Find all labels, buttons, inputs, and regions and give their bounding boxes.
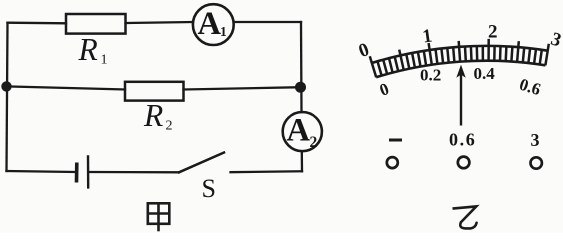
terminal label minus (389, 139, 402, 142)
ammeter A1 (193, 4, 234, 45)
needle (pointer arrow) (460, 70, 462, 126)
svg-text:3: 3 (548, 29, 563, 52)
svg-text:2: 2 (310, 134, 318, 151)
node: left junction dot (1, 81, 11, 91)
wire: A2 down to bottom-right corner (301, 151, 304, 171)
svg-text:0.2: 0.2 (420, 66, 441, 85)
wire: battery to switch pivot (90, 171, 180, 174)
svg-text:1: 1 (101, 53, 108, 68)
label 甲 (drawn) (148, 203, 170, 231)
terminal post minus (387, 157, 398, 168)
svg-text:A: A (287, 113, 311, 149)
node: right junction dot (295, 82, 306, 93)
resistor R2 (125, 82, 184, 101)
wire: top-left segment to R1 (8, 22, 67, 25)
terminal post 3 (531, 157, 542, 168)
meter scale band inner arc (376, 61, 545, 78)
meter scale band outer arc (372, 46, 548, 63)
wire: bottom-right segment from switch to corner (231, 170, 303, 173)
svg-text:R: R (143, 98, 163, 133)
svg-text:1: 1 (421, 25, 433, 47)
battery negative plate (short) (75, 163, 79, 183)
svg-text:0: 0 (356, 39, 372, 62)
wire: right vertical from top corner down to A2 (300, 22, 303, 112)
wire: left vertical branch (7, 23, 8, 171)
svg-text:0.6: 0.6 (449, 130, 476, 150)
meter tick marks (370, 39, 549, 77)
svg-text:R: R (78, 32, 98, 67)
battery positive plate (long) (87, 155, 90, 188)
svg-text:0: 0 (377, 79, 391, 100)
svg-text:S: S (202, 174, 216, 203)
terminal post 0.6 (458, 157, 470, 169)
svg-text:3: 3 (531, 130, 540, 150)
ammeter A2 (283, 112, 322, 151)
svg-text:0.6: 0.6 (517, 75, 543, 100)
wire: R1 to ammeter A1 (126, 22, 193, 23)
svg-text:0.4: 0.4 (474, 64, 496, 83)
wire: R2 to right node (184, 87, 301, 89)
svg-text:A: A (198, 6, 222, 42)
wire: A1 to top-right corner (234, 21, 301, 23)
svg-text:2: 2 (488, 22, 498, 43)
resistor R1 (66, 14, 126, 34)
svg-text:1: 1 (220, 24, 227, 39)
wire: bottom-left segment to battery (7, 171, 76, 172)
label 乙 (drawn) (453, 206, 477, 228)
svg-text:2: 2 (166, 119, 173, 134)
wire: middle branch from left node to R2 (6, 86, 125, 89)
switch S blade (179, 153, 224, 173)
